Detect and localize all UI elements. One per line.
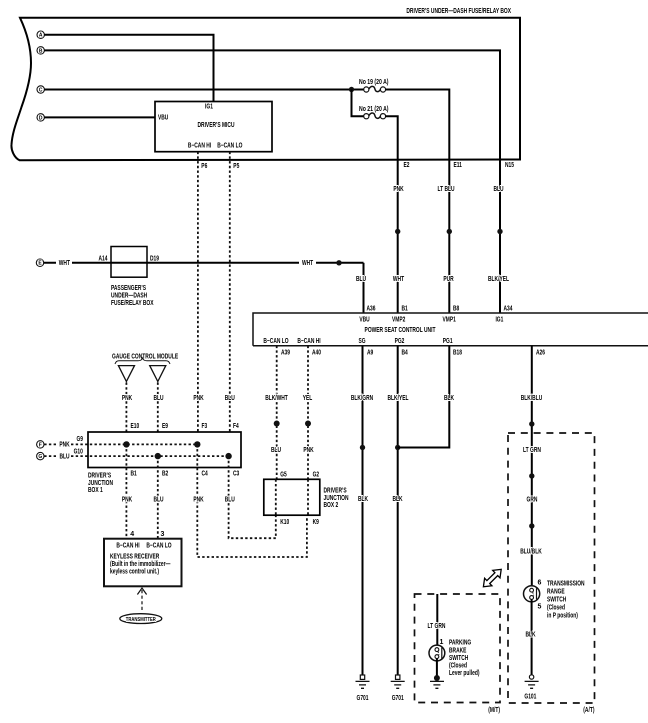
- svg-text:K9: K9: [313, 519, 319, 526]
- label WHT left (on wire): [56, 259, 72, 267]
- wire B18 PG1 BLK joining B4 wire: [398, 346, 450, 448]
- junction dot E9 row G: [155, 453, 161, 459]
- wire E9 dashed from triangle 2: [157, 383, 159, 433]
- svg-text:PNK: PNK: [59, 442, 69, 449]
- svg-text:LT BLU: LT BLU: [437, 186, 454, 193]
- wire fuse21 to E2: [386, 116, 398, 159]
- parking brake switch label: [449, 640, 480, 678]
- svg-text:BLK/YEL: BLK/YEL: [388, 395, 410, 402]
- svg-text:G101: G101: [524, 694, 536, 701]
- wire B4 PG2 BLK/YEL-BLK to ground G701: [397, 346, 399, 675]
- ground symbol parking brake: [430, 681, 444, 688]
- svg-text:C4: C4: [202, 471, 208, 478]
- svg-text:B: B: [39, 48, 43, 54]
- svg-text:B4: B4: [402, 350, 408, 357]
- svg-text:5: 5: [538, 604, 542, 611]
- svg-text:DRIVER’S: DRIVER’S: [88, 473, 111, 480]
- svg-text:E2: E2: [404, 162, 410, 169]
- wire from junction down to fuse No 21: [352, 90, 364, 117]
- svg-text:PNK: PNK: [122, 497, 132, 504]
- svg-text:JUNCTION: JUNCTION: [88, 480, 113, 487]
- svg-text:(A/T): (A/T): [583, 707, 594, 714]
- connector circle C: [37, 86, 44, 94]
- svg-text:DRIVER’S: DRIVER’S: [324, 488, 347, 495]
- svg-text:PARKING: PARKING: [449, 640, 472, 647]
- wire A26 BLK/BLU down to transmission range switch: [531, 346, 533, 589]
- gauge control module brace: [115, 358, 170, 364]
- svg-text:WHT: WHT: [393, 276, 405, 283]
- svg-text:BLK/WHT: BLK/WHT: [265, 395, 288, 402]
- splice on A40 wire: [305, 421, 311, 427]
- wire C to fuse junction: [44, 89, 363, 91]
- svg-text:BLK: BLK: [358, 496, 368, 503]
- splice on A39 wire: [274, 421, 280, 427]
- svg-text:FUSE/RELAY BOX: FUSE/RELAY BOX: [111, 300, 154, 307]
- fuse No 21 (20 A): [359, 106, 389, 119]
- svg-text:PUR: PUR: [443, 276, 453, 283]
- svg-text:G5: G5: [280, 472, 287, 479]
- wire A9 SG BLK/GRN-BLK to ground G701: [362, 346, 364, 675]
- svg-text:3: 3: [161, 531, 165, 538]
- svg-text:F: F: [39, 442, 42, 448]
- svg-text:B−CAN HI: B−CAN HI: [188, 142, 211, 149]
- svg-text:BLU: BLU: [153, 497, 163, 504]
- svg-text:(Built in the immobilizer—: (Built in the immobilizer—: [110, 561, 170, 568]
- wire E11 LT BLU/PUR to VMP1 B8: [448, 160, 450, 314]
- wire D to VBU of driver's MICU: [44, 116, 155, 118]
- svg-text:A14: A14: [99, 256, 108, 263]
- keyless receiver box: [104, 539, 182, 587]
- svg-text:PNK: PNK: [393, 186, 403, 193]
- svg-text:C3: C3: [233, 471, 239, 478]
- svg-text:B−CAN LO: B−CAN LO: [217, 142, 243, 149]
- svg-text:BLK: BLK: [444, 395, 454, 402]
- wire B1 dashed to keyless pin 4: [125, 444, 127, 538]
- power seat control unit box: [253, 306, 648, 357]
- wire B2 dashed to keyless pin 3: [157, 456, 159, 539]
- connector circle A: [37, 31, 44, 39]
- fuse No 19 (20 A): [359, 79, 389, 92]
- connector circle D: [37, 114, 44, 122]
- svg-text:SWITCH: SWITCH: [449, 655, 468, 662]
- svg-text:K10: K10: [280, 519, 289, 526]
- splice on A26 wire 2: [529, 473, 534, 478]
- junction node on wire C: [349, 87, 354, 92]
- driver's under-dash fuse/relay box outline (torn left edge): [11, 18, 520, 160]
- junction dot F4 row G: [225, 453, 231, 459]
- svg-text:N15: N15: [505, 162, 514, 169]
- svg-text:UNDER—DASH: UNDER—DASH: [111, 293, 147, 300]
- wire N15 BLU/BLK-YEL to IG1 A34: [499, 160, 501, 314]
- svg-text:PNK: PNK: [303, 447, 313, 454]
- connector circle F: [37, 441, 44, 449]
- svg-text:E10: E10: [131, 423, 140, 430]
- svg-text:DRIVER’S MICU: DRIVER’S MICU: [198, 122, 235, 129]
- svg-text:IG1: IG1: [495, 317, 503, 324]
- ground wire symbol G701 left: [356, 675, 370, 702]
- wire BLK to ground G101: [531, 599, 533, 675]
- junction dot F3 row F: [194, 441, 200, 447]
- svg-text:P6: P6: [201, 163, 207, 170]
- svg-text:BLK: BLK: [525, 632, 535, 639]
- svg-text:BLU: BLU: [59, 453, 69, 460]
- svg-text:keyless control unit.): keyless control unit.): [110, 569, 159, 576]
- wire LT GRN to parking brake switch: [436, 594, 438, 648]
- transmitter oval: [120, 614, 162, 624]
- svg-text:BLU: BLU: [493, 186, 503, 193]
- svg-text:POWER SEAT CONTROL UNIT: POWER SEAT CONTROL UNIT: [365, 327, 436, 334]
- wire E2 PNK/WHT to VMP2 B1: [397, 160, 399, 314]
- svg-text:(Closed: (Closed: [449, 663, 467, 670]
- svg-text:B2: B2: [162, 471, 168, 478]
- svg-text:B8: B8: [453, 306, 459, 313]
- svg-text:BLU: BLU: [356, 276, 366, 283]
- svg-text:G701: G701: [357, 695, 369, 702]
- svg-text:PG2: PG2: [395, 338, 405, 345]
- svg-text:PNK: PNK: [193, 395, 203, 402]
- svg-text:(M/T): (M/T): [488, 707, 500, 714]
- connector circle B: [37, 47, 44, 55]
- svg-text:B−CAN LO: B−CAN LO: [146, 543, 172, 550]
- svg-text:1: 1: [440, 639, 444, 646]
- wire G5-K10 dashed through box 2: [275, 479, 277, 515]
- svg-text:E9: E9: [162, 423, 168, 430]
- svg-text:A40: A40: [312, 350, 321, 357]
- svg-text:A: A: [39, 33, 43, 39]
- wire C4 dashed to K9: [197, 444, 307, 557]
- svg-text:G701: G701: [392, 695, 404, 702]
- svg-text:WHT: WHT: [59, 260, 71, 267]
- wire B to N15: [44, 50, 500, 159]
- svg-text:VBU: VBU: [359, 317, 369, 324]
- wire A to IG1 of driver's MICU: [44, 35, 213, 102]
- wire B-CAN HI P6 dashed, MICU to F3: [197, 152, 199, 432]
- svg-text:E11: E11: [454, 162, 462, 169]
- svg-text:PNK: PNK: [122, 395, 132, 402]
- svg-text:BLK/BLU: BLK/BLU: [521, 395, 543, 402]
- svg-text:KEYLESS RECEIVER: KEYLESS RECEIVER: [110, 554, 159, 561]
- junction dot E10 row F: [123, 441, 129, 447]
- svg-text:SWITCH: SWITCH: [547, 597, 566, 604]
- svg-text:BLU: BLU: [153, 395, 163, 402]
- svg-text:B−CAN HI: B−CAN HI: [297, 338, 320, 345]
- driver's junction box 2: [264, 479, 320, 515]
- wire B-CAN LO P5 dashed, MICU to F4: [229, 152, 231, 432]
- svg-text:D19: D19: [150, 256, 159, 263]
- svg-text:PNK: PNK: [193, 497, 203, 504]
- parking brake switch: [429, 645, 445, 661]
- svg-text:PG1: PG1: [443, 338, 453, 345]
- svg-text:TRANSMISSION: TRANSMISSION: [547, 581, 585, 588]
- wire C3 dashed to K10: [229, 456, 276, 538]
- svg-text:A36: A36: [367, 306, 376, 313]
- svg-text:BOX 2: BOX 2: [324, 502, 339, 509]
- svg-text:GAUGE CONTROL MODULE: GAUGE CONTROL MODULE: [112, 354, 178, 361]
- svg-text:BLK: BLK: [392, 496, 402, 503]
- gauge control module triangle 1: [118, 366, 134, 382]
- svg-text:VBU: VBU: [158, 115, 168, 122]
- svg-text:G2: G2: [313, 472, 320, 479]
- svg-text:4: 4: [130, 531, 134, 538]
- svg-text:IG1: IG1: [205, 104, 213, 111]
- svg-text:BLU: BLU: [271, 447, 281, 454]
- svg-text:F4: F4: [233, 423, 239, 430]
- svg-text:BLU/BLK: BLU/BLK: [520, 549, 542, 556]
- gauge control module triangle 2: [150, 366, 166, 382]
- wire parking brake switch to ground: [436, 658, 438, 678]
- svg-text:G: G: [38, 454, 42, 460]
- splice on N15 wire: [497, 229, 502, 234]
- svg-text:WHT: WHT: [302, 260, 314, 267]
- svg-text:P5: P5: [233, 163, 239, 170]
- splice dot at ground: [434, 675, 440, 681]
- svg-text:BLK/YEL: BLK/YEL: [488, 276, 510, 283]
- A/T dashed box: [508, 433, 595, 703]
- wire A39 B-CAN LO dashed to G5: [276, 346, 278, 480]
- driver's MICU box: [155, 102, 272, 152]
- splice on A9 wire: [360, 445, 365, 450]
- svg-text:G9: G9: [77, 436, 84, 443]
- svg-text:TRANSMITTER: TRANSMITTER: [126, 617, 156, 623]
- svg-text:YEL: YEL: [303, 395, 313, 402]
- page continuation arrow icon: [483, 569, 501, 586]
- svg-text:BLK/GRN: BLK/GRN: [351, 395, 373, 402]
- splice on A26 wire: [529, 421, 534, 426]
- svg-text:B−CAN HI: B−CAN HI: [116, 543, 139, 550]
- svg-text:B1: B1: [402, 306, 408, 313]
- svg-text:C: C: [39, 87, 43, 93]
- wire G BLU dashed into box row to F4: [44, 455, 228, 457]
- svg-text:F3: F3: [202, 423, 208, 430]
- connector circle G: [37, 452, 44, 460]
- svg-text:6: 6: [538, 580, 542, 587]
- svg-text:BLU: BLU: [225, 395, 235, 402]
- ground wire symbol G701 right: [391, 675, 405, 702]
- svg-text:B−CAN LO: B−CAN LO: [263, 338, 289, 345]
- wire A40 B-CAN HI dashed to G2: [307, 346, 309, 480]
- wire G2-K9 dashed through box 2: [307, 479, 309, 515]
- passenger's under-dash fuse/relay box: [99, 247, 160, 308]
- wire fuse19 to E11: [386, 90, 450, 160]
- svg-text:A34: A34: [504, 306, 513, 313]
- svg-text:GRN: GRN: [527, 497, 538, 504]
- driver's junction box 1: [88, 432, 241, 468]
- svg-text:No 19 (20 A): No 19 (20 A): [359, 79, 389, 86]
- svg-text:G10: G10: [74, 449, 83, 456]
- svg-text:A26: A26: [536, 350, 545, 357]
- transmitter arrow dashed: [137, 588, 146, 611]
- wire F PNK dashed into box row to F3: [44, 443, 197, 445]
- svg-text:SG: SG: [358, 338, 365, 345]
- connector circle E: [36, 259, 43, 267]
- svg-text:VMP2: VMP2: [392, 317, 405, 324]
- svg-text:LT GRN: LT GRN: [523, 447, 541, 454]
- svg-text:LT GRN: LT GRN: [428, 623, 446, 630]
- svg-text:BLU: BLU: [225, 497, 235, 504]
- svg-text:A9: A9: [367, 350, 373, 357]
- svg-text:BOX 1: BOX 1: [88, 487, 103, 494]
- svg-text:B1: B1: [131, 471, 137, 478]
- wire WHT/BLU corner down to A36: [363, 263, 365, 313]
- driver's junction box 1 label: [88, 473, 113, 495]
- transmission range switch label: [547, 581, 585, 620]
- wire E10 dashed from triangle 1: [125, 383, 127, 433]
- svg-text:in P position): in P position): [547, 613, 578, 620]
- svg-text:JUNCTION: JUNCTION: [324, 495, 349, 502]
- svg-text:RANGE: RANGE: [547, 589, 565, 596]
- svg-text:DRIVER’S UNDER—DASH FUSE/RELAY: DRIVER’S UNDER—DASH FUSE/RELAY BOX: [406, 8, 511, 15]
- svg-text:No 21 (20 A): No 21 (20 A): [359, 106, 389, 113]
- M/T dashed box: [415, 594, 501, 703]
- svg-text:D: D: [39, 115, 43, 121]
- ground symbol G101: [524, 675, 538, 701]
- svg-text:PASSENGER’S: PASSENGER’S: [111, 285, 146, 292]
- svg-text:(Closed: (Closed: [547, 605, 565, 612]
- label WHT right (on wire): [299, 259, 316, 267]
- splice on E2 wire: [395, 229, 400, 234]
- junction B18 joins B4: [395, 445, 400, 450]
- splice on E11 wire: [447, 229, 452, 234]
- transmission range switch: [524, 586, 540, 602]
- svg-text:BRAKE: BRAKE: [449, 648, 467, 655]
- splice on WHT wire: [336, 260, 341, 265]
- wire E WHT through passenger's box: [44, 262, 364, 264]
- svg-text:Lever pulled): Lever pulled): [449, 670, 480, 677]
- svg-text:VMP1: VMP1: [443, 317, 456, 324]
- svg-text:B18: B18: [453, 350, 462, 357]
- driver's junction box 2 label: [324, 488, 349, 510]
- splice on A26 wire 3: [529, 523, 534, 528]
- svg-text:A39: A39: [281, 350, 290, 357]
